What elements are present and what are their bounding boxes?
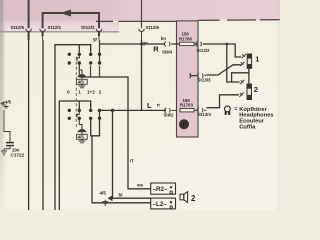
- wire L row col4 link: [99, 110, 101, 118]
- jack1 pin: [247, 54, 251, 68]
- U join col3 col4: [91, 120, 100, 136]
- svg-text:=: =: [234, 106, 237, 112]
- wire St12/5 drop in band: [28, 0, 30, 40]
- svg-text:gr: gr: [93, 36, 98, 41]
- headphone equals text: [234, 106, 273, 130]
- jack2 contact upper: [240, 80, 244, 84]
- wire rail stub col2: [78, 45, 80, 53]
- arrow 4/5 on bl wire: [100, 191, 113, 205]
- upper switch row1 contacts: [68, 53, 102, 56]
- junction dot: [225, 43, 228, 46]
- junction L col4: [98, 109, 101, 112]
- connector St13/2: [196, 42, 203, 47]
- left band lower border faint: [0, 31, 119, 33]
- box L2: [151, 198, 176, 209]
- svg-text:0: 0: [67, 89, 70, 94]
- wire St13/4 to jack2 lower: [207, 95, 239, 108]
- svg-text:St12/2: St12/2: [81, 25, 95, 30]
- module border right: [198, 19, 280, 22]
- capacitor C1722 branch: [4, 110, 10, 142]
- svg-text:4/5: 4/5: [78, 80, 85, 85]
- lower switch rowB contacts: [68, 117, 102, 120]
- wire row2 to bus col3: [90, 66, 92, 77]
- svg-text:R1703: R1703: [180, 103, 193, 108]
- wire row2 to bus col2: [78, 66, 80, 77]
- page ref 4/5 left: [0, 100, 12, 109]
- svg-text:1: 1: [78, 89, 81, 94]
- resistor R1706: [179, 32, 194, 46]
- svg-text:–R2–: –R2–: [153, 186, 168, 193]
- svg-text:L: L: [147, 101, 152, 110]
- connector St9/2: [165, 108, 177, 113]
- svg-text:2: 2: [254, 85, 258, 94]
- svg-text:ws: ws: [136, 183, 144, 188]
- upper switch wiper crank: [77, 55, 82, 74]
- svg-text:bl: bl: [119, 192, 123, 197]
- lower switch rail: [59, 101, 90, 210]
- svg-text:1: 1: [255, 55, 259, 64]
- capacitor C1722: [6, 143, 24, 158]
- upper switch row2 contacts: [68, 61, 102, 64]
- lower switch rowA contacts: [68, 109, 115, 112]
- svg-text:I: I: [183, 122, 185, 129]
- wire row2 to bus col4: [99, 66, 101, 77]
- svg-text:4/5: 4/5: [100, 191, 107, 196]
- svg-text:R1706: R1706: [179, 36, 192, 41]
- connector St13/4: [197, 108, 206, 113]
- wire R1706 to St13/2: [194, 43, 199, 45]
- svg-text:St13/2: St13/2: [197, 48, 210, 53]
- wire St12/2 to contact: [99, 40, 101, 64]
- svg-text:St13/4: St13/4: [198, 112, 211, 117]
- wire St12/6 drop in band: [141, 0, 143, 28]
- svg-text:St12/1: St12/1: [48, 25, 62, 30]
- wire jack1 pin down: [248, 68, 250, 84]
- jack1 contact upper: [242, 54, 246, 58]
- wire R1703 to St13/4: [194, 109, 199, 111]
- speaker icon: [180, 192, 188, 203]
- wire U down bl: [92, 136, 151, 203]
- svg-text:St9/2: St9/2: [164, 112, 175, 117]
- svg-text:bn: bn: [161, 36, 167, 41]
- svg-text:St12/6: St12/6: [146, 25, 160, 30]
- resistor R1703: [180, 98, 194, 112]
- svg-text:St13/3: St13/3: [198, 78, 211, 83]
- jack2 contact lower: [239, 93, 243, 97]
- wire cap to ground: [4, 146, 10, 148]
- connector St12/5: [26, 29, 32, 40]
- svg-text:1+2: 1+2: [87, 89, 95, 94]
- headphone icon: [225, 106, 231, 115]
- svg-text:4/5: 4/5: [5, 100, 12, 105]
- wire St12/5 long vertical: [28, 40, 30, 210]
- edge shading: [0, 0, 3, 210]
- svg-text:St12/5: St12/5: [11, 25, 25, 30]
- svg-text:R: R: [153, 44, 159, 53]
- connector St12/6: [139, 29, 145, 40]
- ground: [1, 149, 7, 155]
- arrowhead left: [60, 10, 71, 17]
- module border middle: [96, 20, 177, 22]
- pink cable strip: [177, 21, 199, 137]
- wire pin link elbow: [232, 73, 249, 82]
- junction St12/6 on R: [140, 43, 143, 46]
- svg-text:–L2–: –L2–: [153, 201, 168, 208]
- pink top band: [0, 0, 280, 21]
- lower switch wiper crank: [77, 112, 82, 129]
- dashed coupling line: [75, 57, 77, 130]
- border white gaps: [113, 20, 260, 21]
- svg-text:rt: rt: [130, 158, 134, 163]
- connector St13/3: [198, 73, 207, 78]
- module circle I: [179, 119, 189, 129]
- shield stub in strip: [190, 73, 197, 78]
- svg-text:gn: gn: [143, 41, 149, 46]
- mech marks below lower box: [79, 139, 86, 143]
- wire upper rail: [55, 45, 91, 210]
- connector St9/4: [164, 42, 169, 47]
- lower wiper trapezoid: [77, 129, 87, 132]
- svg-text:C1722: C1722: [11, 153, 25, 158]
- box 4/5 upper: [77, 77, 88, 85]
- lower rail stub col2: [78, 101, 80, 109]
- pale connector zone: [0, 21, 119, 32]
- box R2: [151, 183, 176, 194]
- wire arrow elbow St12/1 to St12/2: [43, 13, 99, 36]
- wire bus to rt drop: [79, 77, 150, 189]
- connector St12/1: [40, 29, 46, 40]
- wire R line: [100, 43, 180, 45]
- wire St12/6 down to L: [141, 40, 143, 110]
- svg-text:2: 2: [99, 89, 102, 94]
- box 4/5 lower: [77, 132, 88, 140]
- connector St12/2: [96, 29, 102, 40]
- wire bl: [112, 197, 150, 199]
- wire ws drop: [112, 110, 114, 198]
- jack2 pin: [247, 84, 252, 100]
- svg-text:St9/4: St9/4: [162, 49, 173, 54]
- upper wiper trapezoid: [77, 74, 87, 77]
- mech marks below upper box: [79, 84, 86, 88]
- svg-text:2: 2: [191, 194, 196, 203]
- wire St12/1 long vertical: [42, 40, 44, 210]
- jack1 contact lower: [240, 62, 244, 66]
- wire St13/2 to jack1: [203, 44, 241, 57]
- wire down to jack2 upper: [227, 44, 240, 82]
- svg-text:Cuffia: Cuffia: [239, 124, 256, 130]
- svg-text:4/5: 4/5: [78, 135, 85, 140]
- wire L line: [100, 109, 167, 111]
- wire St13/3 diagonal to jack1 lower: [207, 65, 241, 75]
